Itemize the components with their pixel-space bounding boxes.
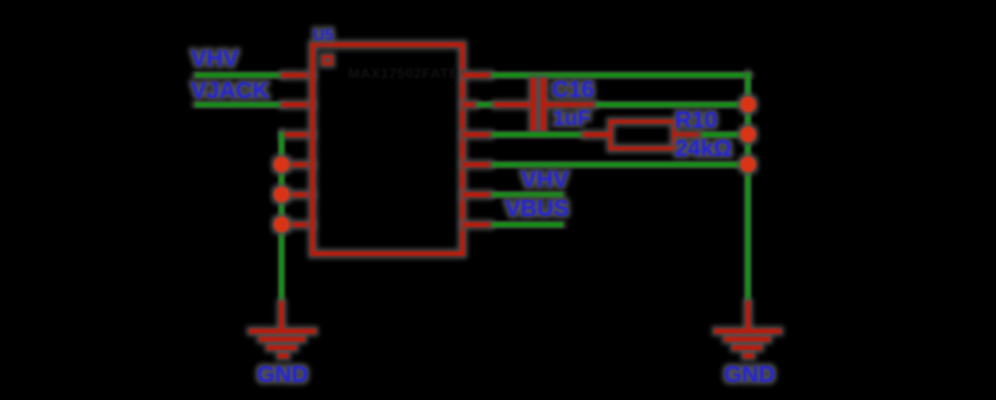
label VJACK: [191, 77, 269, 103]
wire vertical left bus to ground: [279, 132, 284, 301]
svg-text:U5: U5: [313, 27, 334, 44]
junction dot left row4: [274, 157, 290, 173]
svg-text:VHV: VHV: [191, 45, 239, 71]
IC U5 internal part-name text (very faint): [348, 65, 468, 81]
svg-text:VBUS: VBUS: [505, 195, 569, 221]
wire net VBUS (row6): [492, 222, 563, 227]
label 24kOhm value: [675, 135, 732, 161]
junction dot left row5: [274, 187, 290, 203]
wire net VHV right (row5): [492, 192, 563, 197]
wire net VHV left (row1): [195, 73, 283, 78]
wire row2 short segment: [477, 102, 494, 107]
ground symbol right: [714, 301, 781, 358]
wire top net row1 to right bus: [492, 73, 750, 78]
label VHV (left): [191, 45, 239, 71]
svg-text:VHV: VHV: [521, 166, 569, 192]
label U5 designator: [313, 27, 334, 44]
svg-text:24kΩ: 24kΩ: [675, 135, 732, 161]
wire right vertical bus to ground: [745, 73, 750, 302]
wire row3 resistor to right bus: [702, 132, 749, 137]
junction dot right row3: [740, 126, 756, 142]
svg-text:GND: GND: [724, 361, 775, 387]
resistor R10: [583, 122, 702, 149]
svg-text:1uF: 1uF: [553, 107, 591, 130]
svg-text:C16: C16: [552, 76, 594, 102]
svg-text:GND: GND: [257, 361, 308, 387]
label C16: [552, 76, 594, 102]
svg-text:VJACK: VJACK: [191, 77, 269, 103]
label 1uF value: [553, 107, 591, 130]
junction dot right row2: [740, 97, 756, 113]
ground symbol left: [249, 301, 316, 358]
junction dot right row4: [740, 157, 756, 173]
IC U5 body: [313, 45, 463, 254]
junction dot left row6: [274, 217, 290, 233]
IC U5 pin stubs right side (pins 7-12): [463, 73, 493, 227]
label R10: [675, 107, 717, 133]
capacitor C16: [494, 78, 596, 131]
wire row2 cap to right bus: [596, 102, 749, 107]
wire row4 pin to right bus: [492, 162, 749, 167]
svg-text:MAX17502FATB+: MAX17502FATB+: [348, 65, 468, 81]
IC U5 pin stubs left side (pins 1-6): [282, 73, 315, 227]
label VHV (right): [521, 166, 569, 192]
label GND (right): [724, 361, 775, 387]
svg-text:R10: R10: [675, 107, 717, 133]
wire row3 pin to resistor: [492, 132, 583, 137]
label GND (left): [257, 361, 308, 387]
label VBUS: [505, 195, 569, 221]
wire net VJACK left (row2): [195, 102, 283, 107]
